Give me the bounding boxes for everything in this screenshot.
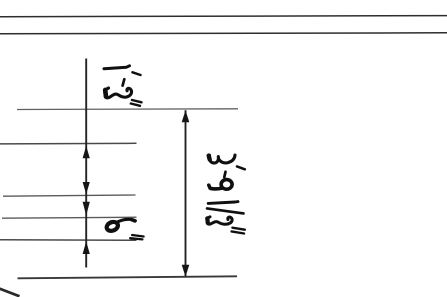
glyph apostrophe	[237, 166, 245, 169]
extension line E	[3, 195, 136, 196]
arrow V1 down at E	[83, 182, 90, 194]
dimension text 1'-2" (rotated, hand lettering)	[104, 66, 142, 106]
glyph slash	[207, 208, 244, 213]
glyph inch marks	[132, 235, 144, 237]
arrow V2 down at bottom	[182, 265, 190, 277]
glyph apostrophe	[133, 72, 141, 75]
glyph 1	[104, 66, 130, 69]
dimension line V1	[85, 59, 87, 268]
wall line top 2	[0, 33, 447, 34]
extension line C	[17, 108, 238, 111]
glyph 2 (of 1/2)	[207, 217, 232, 224]
glyph 9	[221, 180, 232, 190]
glyph 1 (of 1/2)	[208, 202, 238, 204]
glyph inch marks	[132, 100, 142, 102]
glyph hyphen	[224, 172, 225, 177]
diagonal cut line bottom-left	[0, 288, 20, 296]
wall line top 1	[0, 16, 447, 17]
glyph 6	[105, 220, 119, 232]
glyph 2	[105, 88, 132, 98]
bottom line	[18, 276, 238, 278]
glyph 3	[209, 155, 235, 163]
arrow V1 down at F	[83, 202, 90, 216]
extension line G	[0, 239, 137, 242]
extension line D	[0, 142, 137, 145]
extension line F	[2, 217, 137, 218]
dimension line V2	[185, 110, 187, 277]
arrow V1 up at G	[83, 241, 90, 254]
glyph inch marks	[232, 228, 244, 230]
glyph hyphen	[123, 79, 125, 85]
dimension text 3'-9 1/2" (rotated, hand lettering)	[207, 155, 245, 234]
arrow V1 up at D	[83, 146, 90, 158]
dimension text 6" (rotated, hand lettering)	[105, 219, 143, 239]
arrow V2 up at C	[182, 110, 190, 122]
